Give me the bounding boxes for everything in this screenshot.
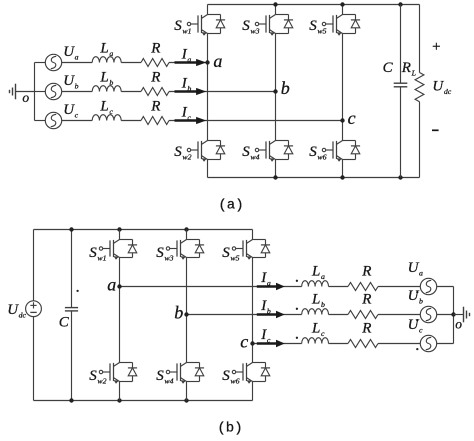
current arrow Ic (a) bbox=[175, 117, 207, 124]
label - (a) bbox=[432, 129, 439, 131]
resistor R (phase c) bbox=[141, 117, 169, 125]
capacitor C branch upper wire (a) bbox=[400, 5, 402, 84]
junction leg2 bottom bus (a) bbox=[273, 175, 277, 179]
IGBT S_w1 (b) bbox=[99, 240, 137, 260]
wire source to right rail (b phase c) bbox=[437, 343, 454, 345]
wire node b to inductor (b) bbox=[187, 314, 302, 316]
node a (a) bbox=[205, 60, 209, 64]
junction capacitor bottom bus (a) bbox=[398, 175, 402, 179]
wire inductor to resistor (b phase b) bbox=[329, 314, 349, 316]
resistor R (phase b) bbox=[141, 88, 169, 96]
node b (b) bbox=[184, 312, 188, 316]
current arrow Ia (a) bbox=[175, 59, 207, 66]
junction leg2 top bus (b) bbox=[184, 227, 188, 231]
wire leg bottom (S_w2) bbox=[207, 160, 209, 178]
AC source Ua bbox=[45, 54, 61, 70]
svg-text:b: b bbox=[174, 302, 183, 322]
IGBT S_w3 (b) bbox=[166, 240, 204, 260]
inductor polarity dot (phase b) bbox=[296, 308, 298, 310]
wire leg middle (b) leg 3/4 bbox=[186, 258, 188, 363]
svg-text:a: a bbox=[213, 51, 222, 71]
resistor R (phase a) bbox=[141, 59, 169, 67]
wire leg bottom (S_w4) bbox=[275, 160, 277, 178]
junction leg2 bottom bus (b) bbox=[184, 398, 188, 402]
DC source U_dc (b) bbox=[26, 301, 42, 317]
capacitor polarity dot (b) bbox=[76, 290, 78, 292]
svg-text:(b): (b) bbox=[217, 421, 242, 436]
wire inductor to resistor (phase a) bbox=[121, 62, 141, 64]
wire resistor to source Uc (b) bbox=[378, 343, 420, 345]
junction capacitor top bus (b) bbox=[69, 227, 73, 231]
source polarity dot (phase b b) bbox=[416, 319, 418, 321]
wire inductor to resistor (b phase a) bbox=[329, 286, 349, 288]
svg-text:R: R bbox=[361, 292, 371, 308]
junction capacitor bottom bus (b) bbox=[69, 398, 73, 402]
top DC bus (a) bbox=[208, 4, 420, 6]
resistor R (b phase a) bbox=[348, 283, 378, 291]
wire source to inductor La bbox=[62, 62, 92, 64]
wire inductor to resistor (phase b) bbox=[121, 91, 141, 93]
wire leg top (S_w3) bbox=[275, 5, 277, 15]
IGBT S_w5 bbox=[322, 15, 360, 36]
node b (a) bbox=[273, 89, 277, 93]
wire inductor to resistor (b phase c) bbox=[329, 343, 349, 345]
wire ground to source bus (a) bbox=[16, 91, 35, 93]
wire leg top (S_w5) bbox=[342, 5, 344, 15]
IGBT S_w4 bbox=[255, 141, 293, 162]
bottom DC bus (b) bbox=[34, 400, 253, 402]
svg-text:R: R bbox=[150, 98, 160, 114]
capacitor C (b) bbox=[65, 308, 78, 311]
top DC bus (b) bbox=[34, 229, 253, 231]
svg-text:R: R bbox=[361, 321, 371, 337]
junction capacitor top bus (a) bbox=[398, 2, 402, 6]
inductor polarity dot (phase c) bbox=[296, 337, 298, 339]
wire bus to source Uc bbox=[35, 120, 46, 122]
wire leg bottom (b) (S_w2) bbox=[119, 382, 121, 401]
inductor Lb (b) bbox=[302, 309, 329, 315]
svg-text:+: + bbox=[432, 39, 440, 55]
wire source to inductor Lc bbox=[62, 120, 92, 122]
resistor R (b phase b) bbox=[348, 311, 378, 319]
inductor La bbox=[92, 57, 121, 63]
current arrow Ia (b) bbox=[257, 283, 285, 290]
wire leg bottom (b) (S_w4) bbox=[186, 382, 188, 401]
AC source Uc (b) bbox=[420, 335, 436, 351]
ground (b) reference bbox=[464, 307, 470, 323]
wire leg middle (leg 1/2) bbox=[207, 34, 209, 141]
svg-text:c: c bbox=[240, 331, 248, 351]
svg-text:b: b bbox=[281, 78, 290, 98]
svg-text:o: o bbox=[22, 90, 29, 105]
wire leg top (S_w1) bbox=[207, 5, 209, 15]
wire source to inductor Lb bbox=[62, 91, 92, 93]
wire rail to ground (b) bbox=[454, 314, 464, 316]
IGBT S_w6 bbox=[322, 141, 360, 162]
junction leg3 bottom bus (a) bbox=[340, 175, 344, 179]
wire resistor to source Ua (b) bbox=[378, 286, 420, 288]
wire leg bottom (S_w6) bbox=[342, 160, 344, 178]
capacitor branch upper wire (b) bbox=[71, 230, 73, 308]
DC source upper wire (b) bbox=[33, 230, 35, 301]
wire leg bottom (b) (S_w6) bbox=[252, 382, 254, 401]
AC source Ub bbox=[45, 83, 61, 99]
svg-text:o: o bbox=[455, 316, 462, 331]
svg-text:(a): (a) bbox=[218, 198, 243, 214]
node c (a) bbox=[340, 118, 344, 122]
svg-text:a: a bbox=[107, 274, 116, 294]
wire resistor to node b bbox=[169, 91, 276, 93]
node a (b) bbox=[117, 284, 121, 288]
wire leg top (b) (S_w1) bbox=[119, 230, 121, 240]
node c (b) bbox=[250, 341, 254, 345]
wire resistor to node c bbox=[169, 120, 343, 122]
capacitor C branch lower wire (a) bbox=[400, 87, 402, 178]
inductor polarity dot (phase a) bbox=[296, 280, 298, 282]
wire bus to source Ua bbox=[35, 62, 46, 64]
ground (a) reference bbox=[10, 84, 16, 100]
svg-text:c: c bbox=[348, 108, 356, 128]
svg-text:C: C bbox=[383, 60, 394, 76]
wire leg middle (b) leg 1/2 bbox=[119, 258, 121, 363]
AC source Ua (b) bbox=[420, 278, 436, 294]
inductor Lc (b) bbox=[302, 338, 329, 344]
wire resistor to node a bbox=[169, 62, 208, 64]
source polarity dot (phase c b) bbox=[416, 348, 418, 350]
wire node a to inductor (b) bbox=[120, 286, 302, 288]
IGBT S_w3 bbox=[255, 15, 293, 36]
right rail (b) bbox=[453, 287, 455, 344]
current arrow Ic (b) bbox=[257, 340, 285, 347]
svg-text:R: R bbox=[150, 40, 160, 56]
wire source to right rail (b phase b) bbox=[437, 314, 454, 316]
IGBT S_w2 bbox=[187, 141, 225, 162]
wire leg top (b) (S_w5) bbox=[252, 230, 254, 240]
svg-text:C: C bbox=[59, 315, 70, 331]
wire source to right rail (b phase a) bbox=[437, 286, 454, 288]
inductor Lc bbox=[92, 115, 121, 121]
inductor Lb bbox=[92, 86, 121, 92]
wire leg middle (leg 3/4) bbox=[275, 34, 277, 141]
current arrow Ib (b) bbox=[257, 311, 285, 318]
svg-text:R: R bbox=[150, 69, 160, 85]
source polarity dot (phase a b) bbox=[416, 291, 418, 293]
wire leg middle (leg 5/6) bbox=[342, 34, 344, 141]
IGBT S_w1 bbox=[187, 15, 225, 36]
wire leg middle (b) leg 5/6 bbox=[252, 258, 254, 363]
wire leg top (b) (S_w3) bbox=[186, 230, 188, 240]
DC source lower wire (b) bbox=[33, 317, 35, 401]
wire source bus vertical (a) bbox=[34, 63, 36, 121]
svg-text:R: R bbox=[361, 264, 371, 280]
IGBT S_w4 (b) bbox=[166, 363, 204, 384]
current arrow Ib (a) bbox=[175, 88, 207, 95]
load resistor R_L bbox=[415, 73, 424, 102]
wire bus to source Ub bbox=[35, 91, 46, 93]
IGBT S_w6 (b) bbox=[232, 363, 270, 384]
AC source Ub (b) bbox=[420, 306, 436, 322]
junction leg3 top bus (a) bbox=[340, 2, 344, 6]
capacitor C (a) bbox=[394, 83, 408, 87]
junction leg1 top bus (b) bbox=[117, 227, 121, 231]
wire node c to inductor (b) bbox=[253, 343, 302, 345]
bottom DC bus (a) bbox=[208, 177, 420, 179]
load branch upper wire (a) bbox=[419, 5, 421, 73]
wire resistor to source Ub (b) bbox=[378, 314, 420, 316]
load branch lower wire (a) bbox=[419, 102, 421, 178]
resistor R (b phase c) bbox=[348, 340, 378, 348]
junction leg1 bottom bus (b) bbox=[117, 398, 121, 402]
junction right rail row b bbox=[451, 312, 455, 316]
IGBT S_w2 (b) bbox=[99, 363, 137, 384]
AC source Uc bbox=[45, 112, 61, 128]
junction leg2 top bus (a) bbox=[273, 2, 277, 6]
wire inductor to resistor (phase c) bbox=[121, 120, 141, 122]
inductor La (b) bbox=[302, 281, 329, 287]
capacitor branch lower wire (b) bbox=[71, 311, 73, 401]
IGBT S_w5 (b) bbox=[232, 240, 270, 260]
